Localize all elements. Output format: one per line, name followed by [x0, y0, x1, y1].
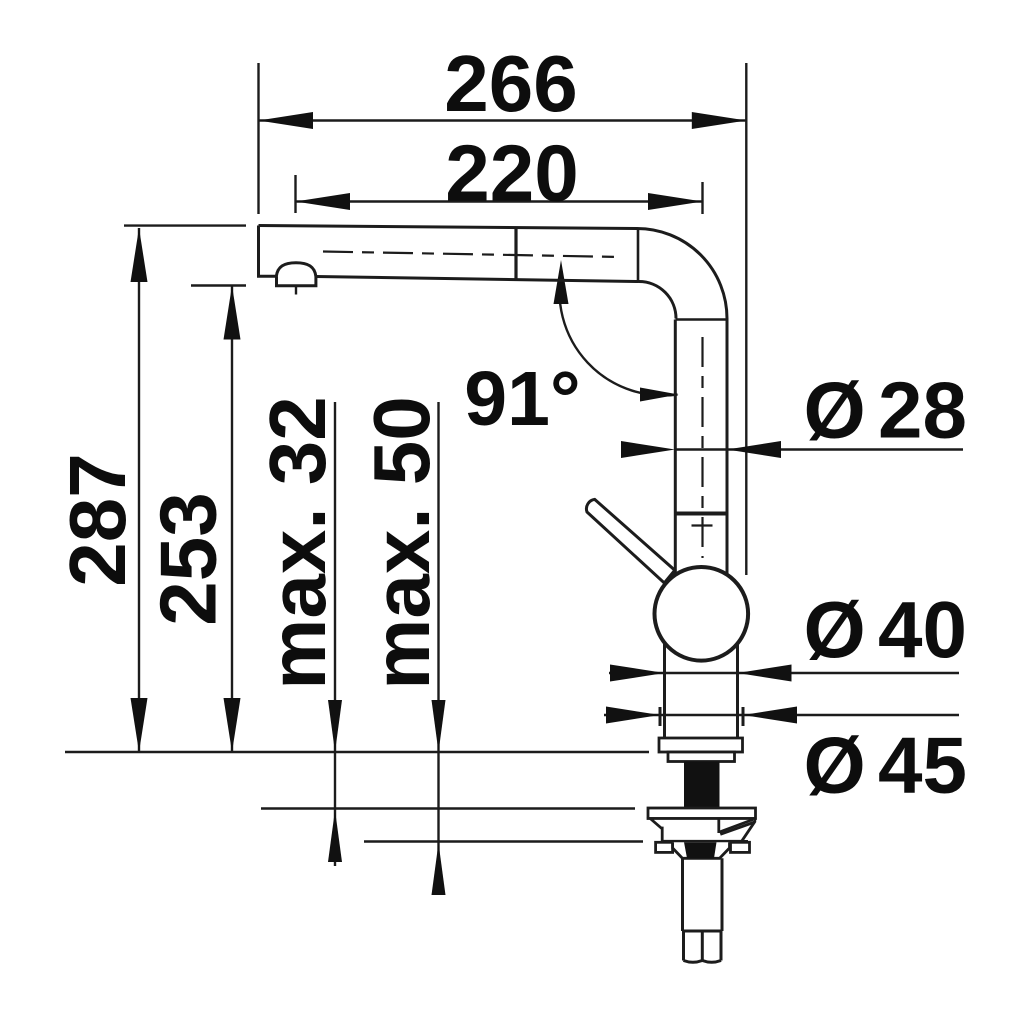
threaded shank	[684, 762, 720, 809]
supply tube right edge	[721, 858, 724, 931]
svg-text:max. 50: max. 50	[357, 396, 446, 690]
svg-text:45: 45	[878, 721, 967, 810]
angle arc 91 degrees	[554, 260, 679, 402]
lock nut right tab	[731, 842, 750, 852]
base flange	[659, 738, 743, 752]
extension line for 253 dimension	[191, 284, 246, 286]
inner elbow arc	[639, 282, 676, 319]
extension line top for 287 dimension	[124, 224, 246, 226]
extension line right of 220 dimension	[701, 182, 703, 214]
hex end faces	[684, 931, 722, 962]
supply tube left edge	[681, 858, 684, 931]
diameter 28 dimension	[621, 441, 963, 458]
lock nut body	[673, 842, 730, 858]
hose joint line	[675, 512, 727, 516]
dimension line max.50	[432, 402, 446, 895]
svg-text:253: 253	[144, 492, 233, 625]
svg-text:Ø: Ø	[804, 585, 866, 674]
svg-text:287: 287	[53, 453, 142, 586]
elbow seam horizontal	[676, 318, 728, 321]
svg-text:266: 266	[444, 39, 577, 128]
dimension line 266	[259, 112, 747, 129]
spout top edge and outer elbow arc and pipe right edge	[259, 226, 728, 575]
svg-text:max. 32: max. 32	[253, 396, 342, 690]
body left edge	[663, 643, 666, 738]
extension line left of 266 dimension	[257, 63, 259, 214]
diameter 40 dimension	[609, 665, 959, 682]
svg-text:28: 28	[878, 366, 967, 455]
dimension line 287	[131, 228, 148, 752]
pipe left edge	[674, 320, 677, 575]
body right edge	[736, 644, 739, 739]
elbow seam vertical	[637, 229, 640, 282]
hex end top line	[683, 930, 723, 933]
lever handle	[586, 499, 674, 583]
max.50 reference line	[364, 840, 643, 843]
svg-text:Ø: Ø	[804, 721, 866, 810]
svg-text:91°: 91°	[464, 356, 580, 442]
dimension line 220	[296, 193, 703, 210]
spout seam vertical	[514, 227, 517, 280]
svg-text:40: 40	[878, 585, 967, 674]
extension line left of 220 dimension	[294, 175, 296, 213]
spray head dome	[276, 263, 316, 295]
lock nut black center	[684, 842, 717, 858]
clamping wedge	[650, 819, 755, 842]
ball joint	[655, 567, 749, 661]
dimension line max.32	[328, 402, 342, 866]
svg-text:220: 220	[445, 129, 578, 218]
pipe centerline dashed	[692, 337, 713, 558]
base ring	[668, 752, 735, 762]
spout bottom edge	[316, 277, 639, 282]
svg-text:Ø: Ø	[804, 366, 866, 455]
spout left end edge	[257, 226, 260, 277]
spout bottom left segment	[257, 275, 277, 278]
max.32 reference line	[261, 807, 635, 810]
mounting plate	[648, 808, 756, 819]
extension line right of 266 dimension	[745, 63, 747, 575]
dimension line 253	[224, 286, 241, 753]
counter top line	[65, 751, 649, 754]
lock nut left tab	[656, 842, 673, 852]
spout centerline dashed	[323, 252, 622, 258]
diameter 45 dimension	[604, 707, 959, 727]
